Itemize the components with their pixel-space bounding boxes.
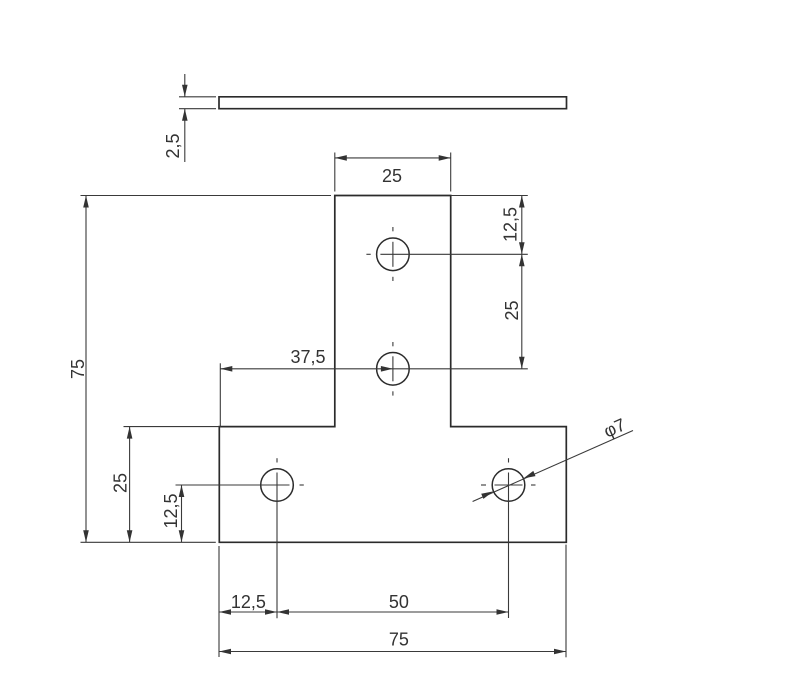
svg-text:12,5: 12,5 xyxy=(231,592,266,612)
svg-text:37,5: 37,5 xyxy=(290,347,325,367)
svg-text:50: 50 xyxy=(389,592,409,612)
svg-text:25: 25 xyxy=(111,473,131,493)
svg-text:φ7: φ7 xyxy=(601,414,629,441)
svg-text:2,5: 2,5 xyxy=(163,133,183,158)
svg-text:25: 25 xyxy=(502,300,522,320)
svg-text:75: 75 xyxy=(389,629,409,649)
svg-text:75: 75 xyxy=(68,359,88,379)
svg-text:25: 25 xyxy=(382,166,402,186)
svg-text:12,5: 12,5 xyxy=(161,493,181,528)
svg-text:12,5: 12,5 xyxy=(500,207,520,242)
